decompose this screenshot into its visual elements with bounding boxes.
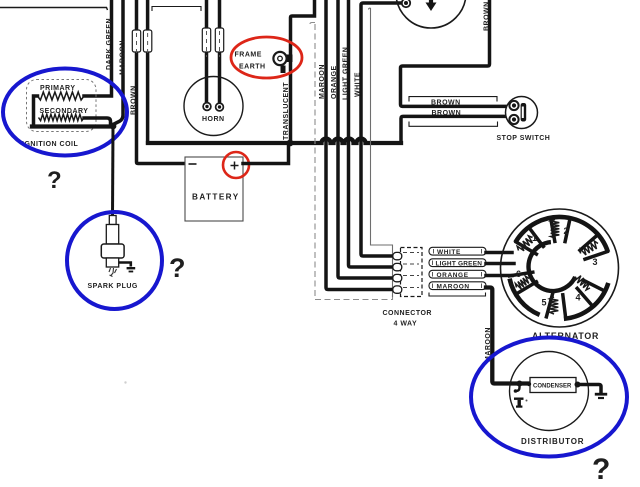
svg-text:LIGHT GREEN: LIGHT GREEN [343, 47, 350, 100]
wire WHITE to alternator [486, 251, 512, 255]
wire: thin leader at top left [0, 8, 108, 11]
wire BROWN (battery negative lead) [137, 0, 186, 164]
condenser left terminal node [527, 382, 531, 386]
svg-text:WHITE: WHITE [437, 249, 461, 256]
condenser box [530, 378, 576, 393]
contact breaker arm [516, 384, 520, 392]
bracket below BROWN labels [409, 122, 498, 127]
coil 6 winding [515, 276, 529, 289]
wire WHITE run (from ammeter) [361, 3, 402, 256]
battery minus sign [189, 163, 197, 165]
wire MAROON (coil feed from top) [114, 0, 123, 124]
wire BROWN from top to stop switch (upper) [401, 0, 512, 106]
ammeter body [396, 0, 466, 28]
bracket at top [152, 7, 201, 12]
svg-text:5: 5 [542, 298, 547, 308]
coil secondary winding [39, 114, 85, 120]
wire ORANGE to alternator [486, 274, 512, 278]
coil 5 winding [550, 297, 559, 314]
ignition coil outline (dotted) [27, 80, 97, 132]
blue circle around spark plug [67, 212, 162, 309]
svg-text:3: 3 [593, 257, 598, 267]
battery box [185, 157, 243, 221]
battery plus sign [231, 162, 239, 170]
svg-text:?: ? [47, 167, 62, 194]
alternator pole 2 [551, 218, 570, 241]
svg-text:1: 1 [532, 233, 537, 243]
stop switch terminal 2 [509, 115, 518, 124]
spark plug lower shell [106, 258, 118, 267]
main bus wire with hops over the four cable runs [148, 139, 401, 144]
wire BROWN (to bus) [146, 0, 150, 143]
wire coil bottom to junction [32, 124, 113, 128]
svg-text:?: ? [169, 253, 186, 283]
distributor body [510, 352, 589, 431]
faint stray dot [124, 381, 126, 383]
svg-text:ORANGE: ORANGE [331, 65, 338, 99]
svg-text:SPARK PLUG: SPARK PLUG [88, 283, 138, 290]
svg-text:BATTERY: BATTERY [192, 193, 240, 202]
svg-text:TRANSLUCENT: TRANSLUCENT [283, 82, 290, 140]
svg-text:DISTRIBUTOR: DISTRIBUTOR [521, 437, 584, 446]
svg-text:PRIMARY: PRIMARY [40, 85, 76, 92]
wire to horn terminal 2 [218, 0, 222, 102]
wire TRANSLUCENT (earth lead) [291, 0, 315, 143]
alternator pole 5 [546, 294, 565, 318]
alternator outer rim [501, 209, 619, 327]
condenser right terminal node [575, 382, 581, 388]
svg-text:BROWN: BROWN [432, 110, 462, 117]
contact breaker points and earth [514, 398, 524, 400]
bracket below label boxes [429, 293, 486, 297]
ammeter needle [429, 0, 433, 3]
svg-text:CONNECTOR: CONNECTOR [383, 310, 432, 317]
svg-text:?: ? [592, 453, 610, 486]
connector body (4-way) [401, 248, 423, 297]
blue ellipse around distributor [471, 338, 627, 457]
svg-text:2: 2 [564, 226, 569, 236]
svg-text:BROWN: BROWN [131, 85, 138, 115]
junction node (coil HT) [110, 123, 117, 130]
spark plug centre electrode sparks [109, 268, 117, 277]
svg-text:MAROON: MAROON [437, 283, 470, 290]
svg-text:DARK GREEN: DARK GREEN [106, 18, 113, 70]
horn terminal eyelets [203, 103, 211, 111]
alternator pole 4 [577, 280, 604, 306]
wire LIGHT GREEN to alternator [486, 262, 514, 266]
svg-text:HORN: HORN [202, 116, 225, 123]
wire secondary right lead [84, 118, 111, 124]
spark plug side electrode and ground [119, 263, 131, 267]
stop switch contact bar [521, 103, 527, 122]
red circle around battery positive [223, 152, 249, 178]
connector bullets (wire ends) [393, 252, 402, 259]
svg-text:LIGHT GREEN: LIGHT GREEN [436, 260, 483, 267]
spark plug insulator [106, 225, 118, 245]
coil 4 winding [575, 276, 591, 290]
junction node at breaker [517, 381, 523, 387]
coil 2 winding [551, 220, 560, 239]
wire DARK GREEN (to coil primary) [84, 0, 112, 96]
wire battery positive to bus [243, 143, 289, 164]
label box MAROON [429, 282, 486, 290]
junction node bus / translucent wire [287, 140, 294, 147]
svg-text:FRAME: FRAME [235, 52, 262, 59]
spark plug terminal cap [109, 216, 116, 225]
connector bullet on brown wire 2 [143, 30, 151, 52]
wire coil left side [34, 96, 38, 127]
label box WHITE [429, 247, 486, 255]
svg-text:4: 4 [576, 293, 581, 303]
connector bullet on horn wire 2 [215, 28, 223, 52]
connector bullet on brown wire [132, 30, 140, 52]
earth ground symbol [595, 393, 607, 396]
alternator pole 3 [580, 235, 607, 259]
stop switch body [506, 97, 538, 129]
svg-text:WHITE: WHITE [355, 72, 362, 97]
alternator rotor horseshoe [529, 242, 576, 291]
svg-text:6: 6 [516, 269, 521, 279]
svg-text:4 WAY: 4 WAY [394, 321, 418, 328]
horn body [184, 77, 243, 136]
wire HT lead to spark plug [111, 126, 115, 216]
translucent sleeve boundary (left) [310, 23, 393, 300]
svg-text:EARTH: EARTH [239, 64, 266, 71]
label box LIGHT GREEN [429, 259, 486, 267]
red ellipse around frame earth [231, 37, 302, 78]
alternator pole 6 [510, 272, 537, 294]
wire MAROON down to distributor [486, 288, 530, 384]
coil primary winding [38, 92, 85, 100]
wire ORANGE run [338, 0, 396, 278]
bracket above BROWN labels [409, 97, 497, 102]
ammeter terminal [402, 0, 410, 7]
frame earth eyelet terminal [283, 55, 293, 63]
alternator pole 1 [516, 228, 543, 254]
svg-text:ORANGE: ORANGE [437, 272, 469, 279]
wire to horn terminal 1 [205, 0, 209, 101]
frame earth pin [281, 66, 286, 74]
svg-text:BROWN: BROWN [431, 100, 461, 107]
translucent sleeve boundary (right) [369, 8, 393, 297]
alternator stator ring arcs [515, 217, 608, 252]
wire LIGHT GREEN run [349, 0, 397, 267]
wire BROWN from bus to stop switch (lower) [401, 116, 511, 143]
wire MAROON run [326, 0, 396, 290]
svg-text:BROWN: BROWN [484, 1, 491, 31]
svg-text:CONDENSER: CONDENSER [533, 384, 572, 390]
coil 3 winding [580, 241, 598, 255]
svg-text:MAROON: MAROON [120, 40, 127, 75]
svg-text:STOP SWITCH: STOP SWITCH [497, 135, 551, 142]
connector bullet on horn wire 1 [202, 28, 210, 52]
blue ellipse around ignition coil [3, 69, 127, 156]
label box ORANGE [429, 270, 486, 278]
coil 1 winding [517, 236, 532, 251]
wire condenser to earth [578, 385, 602, 393]
spark plug hex body [101, 244, 124, 258]
svg-text:MAROON: MAROON [319, 64, 326, 99]
stop switch terminal 1 [509, 101, 518, 110]
